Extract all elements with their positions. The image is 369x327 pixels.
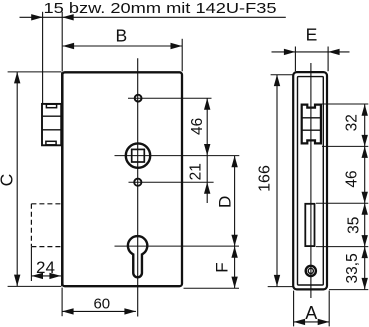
case left edge (thick over keeper) (61, 72, 64, 286)
follower square nut (132, 149, 145, 162)
svg-text:C: C (0, 174, 17, 187)
svg-text:E: E (306, 24, 318, 44)
svg-text:A: A (305, 303, 317, 323)
faceplate centerline (310, 63, 312, 298)
dim E (272, 51, 350, 53)
dim 21 (206, 156, 208, 183)
dim 24 (32, 275, 61, 277)
faceplate inner outline (298, 77, 324, 285)
dim B (63, 45, 182, 47)
svg-text:33,5: 33,5 (344, 253, 361, 283)
keeper side dividers (302, 117, 321, 119)
lower hole axis line (129, 181, 214, 183)
svg-text:21: 21 (187, 163, 204, 180)
svg-text:24: 24 (36, 258, 55, 277)
svg-text:166: 166 (257, 165, 274, 192)
chain arrows (362, 104, 368, 116)
dim A (293, 291, 295, 327)
svg-text:35: 35 (345, 217, 362, 234)
keeper bottom notch (46, 141, 56, 145)
faceplate outer outline (293, 72, 327, 289)
keeper top notch (46, 104, 56, 108)
svg-text:D: D (216, 196, 235, 208)
svg-text:F: F (213, 262, 232, 272)
lock case outline (62, 72, 182, 286)
dashed deadbolt thrown outline (31, 203, 61, 205)
vertical centerline (137, 58, 139, 316)
right chain dimension line (364, 104, 366, 289)
europrofile keyhole (128, 236, 147, 277)
keyhole axis line (115, 245, 240, 247)
svg-text:60: 60 (93, 296, 110, 313)
top hole (135, 95, 142, 102)
dim D (234, 156, 236, 247)
svg-text:15 bzw. 20mm mit 142U-F35: 15 bzw. 20mm mit 142U-F35 (44, 0, 277, 17)
dim 60 (62, 310, 136, 312)
svg-text:B: B (116, 26, 128, 46)
keeper box (front view) (42, 104, 61, 145)
hole axis line top (128, 97, 212, 99)
dim 46 left view (206, 98, 208, 155)
chain extension lines (322, 103, 368, 105)
keeper divider upper (42, 115, 61, 117)
follower axis line (115, 155, 240, 157)
dim 15 extension lines (42, 12, 44, 104)
svg-text:46: 46 (189, 118, 206, 135)
deadbolt slot (305, 204, 314, 246)
keeper box (side view) castellated (302, 105, 321, 144)
dim 166 (276, 75, 278, 287)
lower hole (134, 179, 141, 186)
svg-text:46: 46 (344, 170, 361, 187)
dim C (16, 72, 18, 286)
follower circle (126, 143, 150, 167)
keeper divider lower (42, 129, 61, 131)
svg-text:32: 32 (343, 114, 360, 131)
screw hole (306, 266, 316, 276)
dim F (234, 246, 236, 288)
dim 15 bzw. 20mm top line (20, 16, 286, 18)
